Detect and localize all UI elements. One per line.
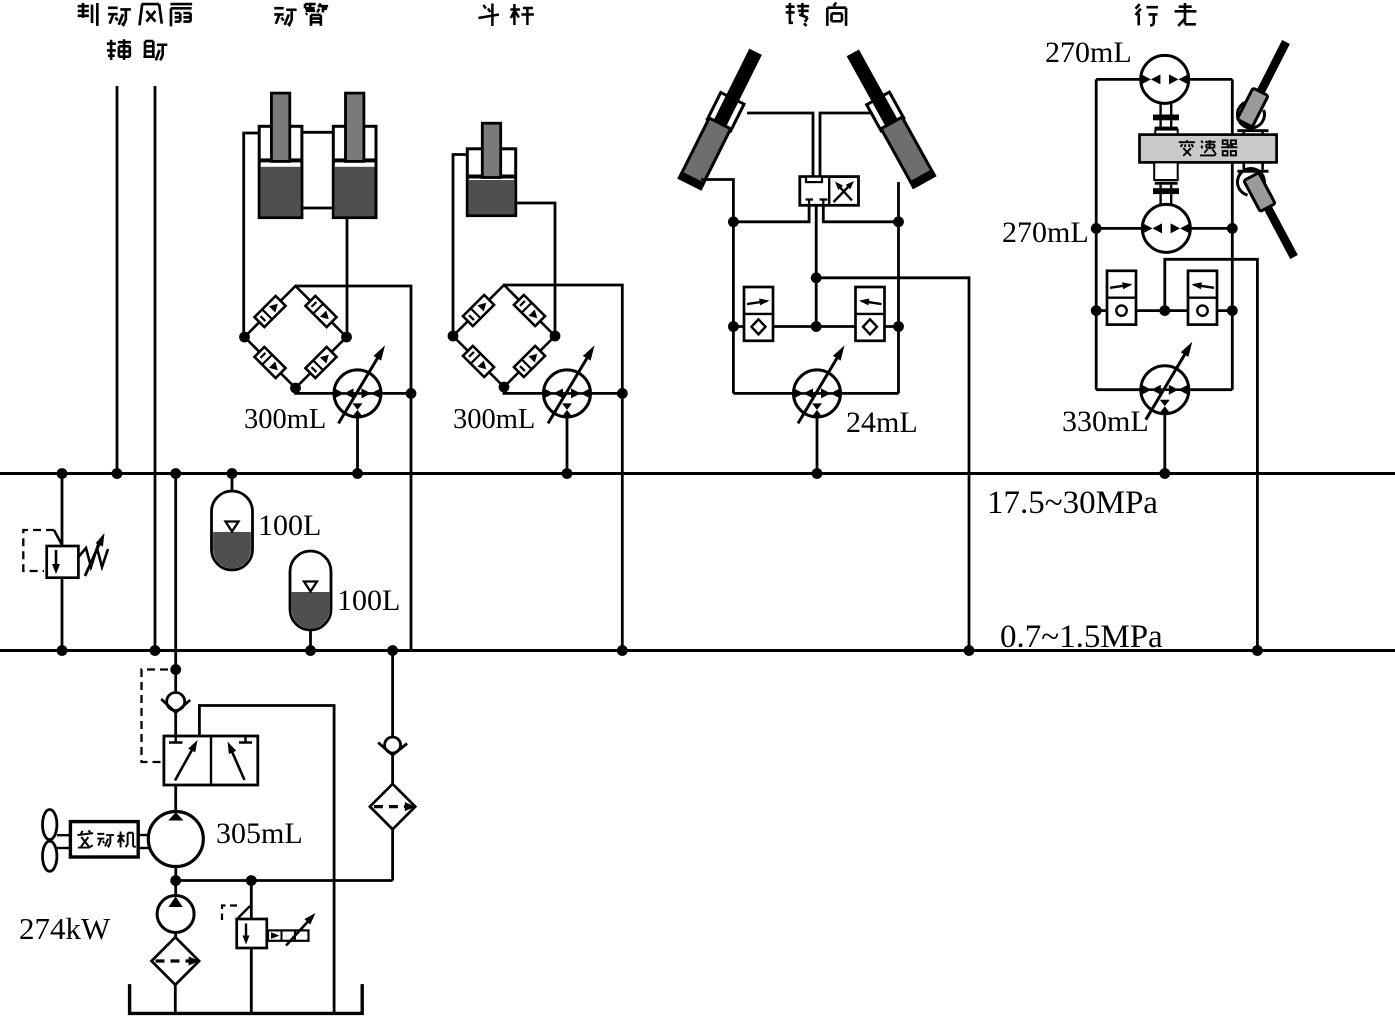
engine cooling fan	[43, 810, 57, 872]
wire: travel right rail	[1231, 79, 1234, 389]
junction: pilot tap on charge line	[170, 664, 181, 675]
wire: relief V4 to tank	[250, 948, 253, 1013]
wire: pump P3 to P bus	[816, 417, 819, 474]
spring of relief valve V1	[78, 548, 108, 567]
junction: M2 on left rail	[1091, 223, 1102, 234]
wire: valve V3 to main pump	[174, 785, 177, 812]
directional valve V2 (steering 4/2)	[800, 177, 859, 206]
junction: relief on T bus	[57, 645, 68, 656]
wire: suction line from tank to valve V3	[199, 706, 334, 1014]
wire: brake-fan feed line	[116, 86, 119, 474]
main pump P5 305mL	[148, 812, 203, 867]
svg-text:100L: 100L	[258, 509, 321, 542]
junction: accumulator 1 on P bus	[227, 468, 238, 479]
check valve CV2	[378, 737, 407, 755]
junction: CV2 line on T bus	[387, 645, 398, 656]
svg-text:274kW: 274kW	[19, 911, 111, 946]
junction: charge line on P bus	[170, 468, 181, 479]
gearbox (bian su qi)	[1140, 135, 1277, 163]
shaft coupling gearbox to motor M2	[1153, 162, 1179, 204]
wire: boom base crossover	[302, 207, 333, 210]
label: engine text	[77, 830, 135, 847]
makeup valve V5a (left)	[1107, 271, 1136, 325]
label: auxiliary (fu zhu)	[107, 39, 167, 60]
wire: arm right supply line	[516, 203, 555, 336]
wire: travel makeup line	[1096, 309, 1232, 312]
steering cylinder CS1 (left)	[677, 46, 767, 191]
label: brake-fan (zhi dong feng shan)	[78, 3, 192, 26]
check-valve bridge (arm)	[448, 285, 561, 392]
wire: arm bridge top to return bus	[504, 285, 622, 651]
wire: pilot (dashed) of relief V4	[222, 906, 237, 921]
boom cylinder CB2 (right)	[333, 93, 376, 218]
wire: CS1 rod-end to valve	[747, 113, 813, 177]
junction: travel return on T bus	[1252, 645, 1263, 656]
wire: boom bridge to pump P1	[296, 388, 412, 393]
travel motor M1 270mL	[1141, 55, 1189, 103]
wire: system relief branch	[61, 474, 64, 651]
svg-text:24mL: 24mL	[846, 406, 918, 439]
wire: T bus to check valve CV2	[391, 651, 394, 738]
junction: aux line on T bus	[150, 645, 161, 656]
junction: accumulator 2 on T bus	[305, 645, 316, 656]
check-valve bridge (boom)	[239, 286, 352, 393]
wire: low-pressure return bus 0.7~1.5MPa	[0, 649, 1395, 652]
charge pump P6	[157, 896, 194, 933]
wire: travel left rail	[1095, 79, 1098, 389]
wire: steering makeup line	[733, 325, 898, 328]
filter F1	[370, 784, 416, 829]
svg-text:270mL: 270mL	[1002, 216, 1089, 249]
arm cylinder CA1	[467, 123, 515, 215]
wire: P6 to filter F2	[174, 933, 177, 938]
junction: makeup right	[893, 321, 904, 332]
wire: valve V2 B-port to right rail	[823, 205, 898, 222]
wire: steering left rail	[701, 180, 733, 394]
relief valve V1 (system)	[47, 546, 79, 578]
hydraulic tank	[130, 984, 363, 1013]
wire: pilot line (dashed) of relief V1	[23, 530, 54, 571]
steering cylinder CS2 (right)	[841, 46, 937, 189]
wire: fan shaft lower	[57, 847, 71, 849]
accumulator A2 100L	[290, 551, 331, 630]
junction: P1 case line	[406, 388, 417, 399]
wire: motor M2 right feed	[1190, 227, 1232, 230]
wire: auxiliary feed line	[154, 86, 157, 651]
junction: M2 on right rail	[1227, 223, 1238, 234]
label: arm (dou gan)	[478, 4, 534, 27]
track tensioner cylinder (top)	[1237, 38, 1293, 127]
wire: CV1 to valve V3	[174, 713, 177, 737]
wire: accumulator 1 to P bus	[231, 474, 234, 492]
svg-text:0.7~1.5MPa: 0.7~1.5MPa	[1000, 619, 1163, 655]
wire: P5 outlet	[174, 867, 177, 881]
wire: engine shaft upper	[138, 834, 148, 836]
spring of relief valve V4	[268, 930, 309, 940]
pump P3 (steering) 24mL variable	[794, 345, 845, 423]
directional valve V3 (pump control 2-pos)	[164, 736, 258, 785]
relief valve V4 (charge)	[237, 919, 267, 948]
pump P2 (arm) 300mL variable	[544, 345, 595, 423]
junction: arm return on T bus	[617, 645, 628, 656]
wire: motor M2 left feed	[1096, 227, 1142, 230]
wire: pilot tap of relief V4	[238, 906, 250, 918]
wire: accumulator 2 to T bus	[309, 630, 312, 651]
makeup valve V5b (right)	[1188, 271, 1217, 325]
wire: motor M1 left feed	[1096, 78, 1141, 81]
track drive arc (bottom)	[1237, 169, 1264, 196]
junction: P3 on P bus	[812, 468, 823, 479]
track tensioner cylinder (bottom)	[1244, 173, 1302, 261]
junction: makeup center	[811, 321, 822, 332]
wire: boom right supply line	[346, 218, 349, 337]
wire: pilot tap of relief V1	[54, 530, 63, 546]
wire: steering pump line	[733, 392, 898, 395]
wire: filter F1 down to manifold	[391, 829, 394, 880]
makeup valve V2a (left)	[744, 287, 773, 341]
track drive coupling bar (top)	[1237, 129, 1268, 134]
svg-text:300mL: 300mL	[453, 404, 535, 435]
wire: pilot line (dashed) to valve V3	[142, 670, 169, 763]
svg-text:300mL: 300mL	[244, 404, 326, 435]
check valve CV1	[161, 693, 190, 713]
label: gearbox text	[1179, 140, 1238, 156]
wire: arm left supply line	[453, 155, 467, 337]
wire: CS2 rod-end to valve	[820, 113, 873, 177]
svg-text:270mL: 270mL	[1045, 36, 1132, 69]
wire: filter F2 to tank	[174, 985, 177, 1013]
wire: motor M1 right feed	[1189, 78, 1233, 81]
label: travel (xing zou)	[1136, 3, 1197, 26]
wire: boom bridge top to return bus	[296, 286, 412, 651]
wire: high-pressure bus 17.5~30MPa	[0, 472, 1395, 475]
junction: travel makeup right	[1227, 305, 1238, 316]
adjust arrow of relief valve V1	[85, 533, 105, 576]
makeup valve V2b (right)	[856, 287, 885, 341]
svg-text:330mL: 330mL	[1062, 405, 1149, 438]
pump P4 (travel) 330mL variable	[1141, 342, 1193, 420]
junction: P2 case line	[617, 388, 628, 399]
shaft coupling motor M1 to gearbox	[1153, 103, 1179, 134]
wire: boom left supply line	[244, 133, 260, 337]
label: boom (dong bi)	[274, 4, 328, 26]
junction: relief on P bus	[57, 468, 68, 479]
junction: A-port on left rail	[728, 216, 739, 227]
wire: boom rod-end crossover	[302, 131, 333, 134]
wire: CV2 to filter F1	[391, 755, 394, 784]
wire: branch to relief valve V4	[250, 881, 253, 920]
wire: steering right rail	[897, 182, 900, 393]
wire: fan shaft upper	[57, 834, 71, 836]
junction: P2 on P bus	[562, 468, 573, 479]
wire: engine shaft lower	[138, 847, 148, 849]
junction: travel makeup center	[1159, 305, 1170, 316]
svg-text:100L: 100L	[337, 584, 400, 617]
junction: steering return on T bus	[964, 645, 975, 656]
junction: P4 on P bus	[1159, 468, 1170, 479]
boom cylinder CB1 (left)	[259, 93, 302, 218]
pump P1 (boom) 300mL variable	[334, 345, 385, 423]
wire: travel pump line	[1096, 388, 1232, 391]
wire: steering return to T bus	[816, 278, 969, 651]
filter F2 (suction)	[152, 937, 200, 985]
wire: valve V2 center to makeup line	[815, 205, 818, 326]
track drive arc (top)	[1237, 101, 1264, 128]
junction: travel makeup left	[1091, 305, 1102, 316]
accumulator A1 100L	[212, 491, 253, 570]
label: steering (zhuan xiang)	[786, 3, 846, 26]
junction: steering return branch	[811, 272, 822, 283]
junction: P1 on P bus	[352, 468, 363, 479]
wire: pump P1 to P bus	[356, 417, 359, 474]
junction: fan line on P bus	[112, 468, 123, 479]
wire: P5 to charge pump P6	[174, 881, 177, 896]
svg-text:305mL: 305mL	[216, 817, 303, 850]
track drive coupling bar (bottom)	[1237, 162, 1268, 172]
travel motor M2 270mL	[1142, 204, 1190, 252]
wire: valve V2 A-port to left rail	[733, 205, 809, 222]
junction: P5 outlet node	[170, 875, 181, 886]
adjust arrow of relief valve V4	[286, 913, 316, 946]
wire: travel return to T bus	[1165, 259, 1258, 650]
wire: charge line from P bus	[174, 474, 177, 693]
wire: arm bridge to pump P2	[504, 387, 622, 393]
engine box (fa dong ji) 274kW	[70, 822, 138, 857]
wire: P5 outlet manifold	[176, 879, 393, 882]
svg-text:17.5~30MPa: 17.5~30MPa	[987, 485, 1158, 521]
wire: pump P4 to P bus	[1163, 414, 1166, 474]
wire: pump P2 to P bus	[566, 417, 569, 474]
junction: makeup left	[728, 321, 739, 332]
junction: B-port on right rail	[893, 216, 904, 227]
junction: relief V4 branch	[246, 875, 257, 886]
